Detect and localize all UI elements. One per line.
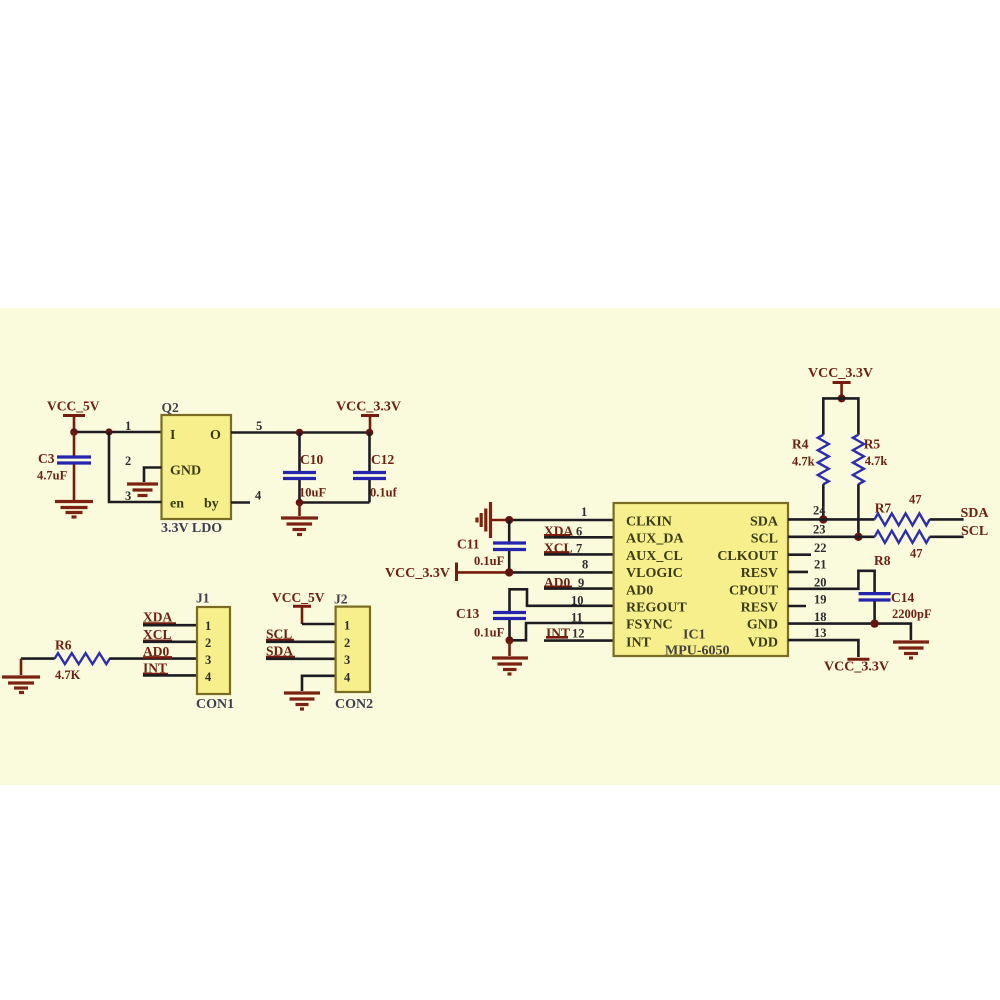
wire IC1 pin 20 CPOUT to C14 — [788, 571, 875, 592]
junction node R5 / SCL — [854, 533, 862, 541]
capacitor C11 — [457, 520, 526, 572]
svg-text:4.7uF: 4.7uF — [37, 469, 68, 483]
net label XDA (J1) — [143, 610, 176, 625]
wire J2 pin 2 — [266, 640, 336, 643]
svg-text:CON1: CON1 — [196, 697, 234, 712]
wire R7 to SDA label — [930, 518, 964, 521]
svg-text:REGOUT: REGOUT — [626, 601, 687, 616]
wire J1 pin 1 — [143, 624, 197, 627]
pin 1 label Q2 — [125, 419, 131, 433]
net label SCL (J2) — [266, 627, 294, 642]
svg-text:1: 1 — [344, 619, 350, 633]
svg-text:R8: R8 — [874, 553, 891, 568]
svg-text:18: 18 — [814, 610, 827, 624]
svg-text:4.7K: 4.7K — [55, 668, 81, 682]
wire R5 to SCL net — [857, 484, 860, 537]
svg-text:CON2: CON2 — [335, 697, 373, 712]
power symbol VCC_3.3V (IC1 pin 13) — [824, 659, 889, 674]
net label AD0 (J1) — [143, 644, 172, 659]
svg-text:VCC_3.3V: VCC_3.3V — [808, 366, 873, 381]
svg-text:SDA: SDA — [750, 515, 779, 530]
svg-text:3: 3 — [125, 489, 131, 503]
svg-text:AD0: AD0 — [626, 583, 653, 598]
svg-text:Q2: Q2 — [162, 400, 180, 415]
ground at Q2 pin 2 — [127, 484, 158, 496]
svg-text:O: O — [210, 428, 221, 443]
svg-text:10uF: 10uF — [299, 486, 326, 500]
wire VCC_3.3V to IC1 pin 8 VLOGIC — [457, 558, 614, 573]
svg-text:3.3V LDO: 3.3V LDO — [161, 521, 222, 536]
svg-text:GND: GND — [170, 464, 201, 479]
svg-text:0.1uF: 0.1uF — [474, 626, 505, 640]
svg-text:en: en — [170, 497, 184, 512]
svg-text:C3: C3 — [38, 451, 55, 466]
wire R8 to SCL label — [930, 535, 964, 538]
svg-text:1: 1 — [581, 505, 587, 519]
wire IC1 pin 19 RESV stub — [788, 593, 827, 607]
wire IC1 pin 13 VDD to power — [788, 626, 858, 657]
svg-text:2: 2 — [205, 636, 211, 650]
net label INT (J1) — [143, 660, 168, 675]
resistor R5 — [853, 435, 888, 485]
svg-text:11: 11 — [571, 611, 583, 625]
wire IC1 pin 7 AUX_CL — [544, 553, 614, 556]
svg-text:I: I — [170, 428, 175, 443]
svg-text:C14: C14 — [891, 590, 914, 605]
junction node C13 / ground — [506, 636, 514, 644]
svg-text:by: by — [204, 497, 219, 512]
svg-text:VDD: VDD — [748, 635, 778, 650]
svg-text:1: 1 — [125, 419, 131, 433]
wire Q2 output pin 5 — [231, 419, 370, 433]
svg-text:VLOGIC: VLOGIC — [626, 566, 683, 581]
svg-text:2: 2 — [344, 636, 350, 650]
net label SCL (right) — [961, 524, 988, 539]
svg-text:CLKOUT: CLKOUT — [717, 549, 778, 564]
svg-text:R7: R7 — [875, 501, 892, 516]
wire IC1 pin 18 GND to ground — [788, 610, 911, 640]
svg-text:IC1: IC1 — [683, 628, 706, 643]
svg-text:C11: C11 — [457, 537, 480, 552]
resistor R8 — [874, 531, 930, 568]
svg-text:VCC_3.3V: VCC_3.3V — [336, 400, 401, 415]
net label SDA (J2) — [266, 644, 295, 659]
junction node C12 / VCC tap — [366, 429, 374, 437]
svg-text:RESV: RESV — [741, 566, 778, 581]
ground below C13 — [492, 640, 528, 674]
junction node C10 ground — [296, 499, 304, 507]
wire R4 to SDA net — [822, 484, 825, 519]
svg-text:23: 23 — [813, 523, 826, 537]
wire IC1 pin 22 CLKOUT stub — [788, 541, 827, 555]
ground below C10 — [281, 503, 318, 535]
svg-text:AUX_DA: AUX_DA — [626, 532, 684, 547]
svg-text:12: 12 — [572, 626, 585, 640]
svg-text:CLKIN: CLKIN — [626, 515, 672, 530]
svg-text:J1: J1 — [196, 591, 210, 606]
svg-text:47: 47 — [910, 547, 923, 561]
capacitor C3 — [37, 432, 91, 500]
op-amp IC1 MPU-6050 — [614, 503, 788, 659]
wire Q2 GND pin 2 — [125, 454, 162, 482]
power symbol VCC_3.3V (regulator output) — [336, 400, 401, 433]
net label XDA (IC1 pin 6) — [544, 523, 582, 538]
svg-text:VCC_5V: VCC_5V — [272, 590, 325, 605]
svg-text:1: 1 — [205, 619, 211, 633]
wire IC1 pin 11 FSYNC to C13 bottom — [510, 611, 614, 641]
regulator Q2 (3.3V LDO) — [161, 400, 231, 536]
svg-text:0.1uf: 0.1uf — [370, 486, 398, 500]
wire IC1 pin 6 AUX_DA — [544, 536, 614, 539]
net label SDA (right) — [961, 506, 990, 521]
wire VCC_5V to Q2 pin 1 — [74, 431, 162, 434]
power symbol VCC_3.3V (IC1 pin 8) — [385, 563, 457, 582]
wire pull-up top link — [823, 398, 858, 434]
junction node VLOGIC / C11 — [505, 568, 513, 576]
svg-text:R4: R4 — [792, 437, 809, 452]
svg-text:4.7k: 4.7k — [865, 454, 888, 468]
svg-text:FSYNC: FSYNC — [626, 618, 673, 633]
svg-text:24: 24 — [813, 504, 826, 518]
capacitor C14 — [859, 590, 932, 624]
wire IC1 pin 10 REGOUT to C13 — [510, 589, 614, 611]
svg-text:AUX_CL: AUX_CL — [626, 549, 683, 564]
wire Q2 bypass pin 4 stub — [231, 489, 262, 503]
svg-text:C12: C12 — [371, 452, 394, 467]
svg-text:SCL: SCL — [961, 524, 988, 539]
svg-text:3: 3 — [205, 653, 211, 667]
svg-text:5: 5 — [256, 419, 262, 433]
svg-text:4.7k: 4.7k — [792, 455, 815, 469]
svg-text:R6: R6 — [55, 638, 72, 653]
svg-text:4: 4 — [255, 489, 262, 503]
ground below IC1 pin 18 — [893, 642, 929, 658]
wire IC1 pin 9 AD0 — [544, 587, 614, 590]
net label XCL (IC1 pin 7) — [544, 540, 582, 555]
svg-text:2200pF: 2200pF — [892, 607, 932, 621]
capacitor C13 — [456, 606, 526, 640]
power symbol VCC_3.3V (pull-ups) — [808, 366, 873, 398]
connector J2 (CON2) — [334, 592, 373, 713]
svg-text:0.1uF: 0.1uF — [474, 554, 505, 568]
svg-text:47: 47 — [909, 493, 922, 507]
capacitor C12 — [353, 433, 398, 503]
ground left of IC1 pin 1 (rotated) — [477, 502, 491, 538]
svg-text:2: 2 — [125, 454, 131, 468]
junction node C10 tap — [296, 429, 304, 437]
wire J1 pin 4 — [143, 674, 197, 677]
wire C10 to C12 bottom link — [300, 501, 370, 504]
wire IC1 pin 23 SCL — [788, 523, 875, 537]
junction node CLKIN / C11 — [505, 516, 513, 524]
svg-text:C10: C10 — [300, 452, 323, 467]
svg-text:VCC_3.3V: VCC_3.3V — [824, 660, 889, 675]
wire VCC_5V to J2 pin 1 — [302, 623, 336, 626]
svg-text:MPU-6050: MPU-6050 — [665, 644, 730, 659]
wire R6 to J1 pin 3 — [109, 657, 197, 660]
resistor R4 — [792, 435, 829, 485]
wire J1 pin 2 — [143, 640, 197, 643]
wire ground to IC1 pin 1 CLKIN — [492, 505, 614, 520]
svg-text:VCC_5V: VCC_5V — [47, 399, 100, 414]
svg-text:19: 19 — [814, 593, 827, 607]
svg-text:SCL: SCL — [751, 532, 778, 547]
ground below J2 pin 4 — [284, 693, 320, 709]
svg-text:20: 20 — [814, 576, 827, 590]
wire IC1 pin 21 RESV stub — [788, 558, 827, 572]
junction node VCC_5V / C3 — [70, 428, 78, 436]
svg-text:CPOUT: CPOUT — [729, 583, 779, 598]
svg-text:22: 22 — [814, 541, 827, 555]
svg-text:10: 10 — [571, 594, 584, 608]
svg-text:RESV: RESV — [741, 601, 778, 616]
connector J1 (CON1) — [196, 591, 234, 713]
wire J2 pin 3 — [266, 657, 336, 660]
svg-text:R5: R5 — [864, 437, 881, 452]
svg-text:SDA: SDA — [961, 506, 990, 521]
ground below C3 — [55, 502, 93, 518]
junction node en riser — [105, 428, 112, 435]
svg-text:8: 8 — [582, 558, 588, 572]
svg-text:13: 13 — [814, 626, 827, 640]
wire Q2 en pin 3 — [109, 432, 162, 503]
svg-text:VCC_3.3V: VCC_3.3V — [385, 566, 450, 581]
svg-text:GND: GND — [747, 618, 778, 633]
junction node C14 / GND net — [870, 619, 878, 627]
svg-text:C13: C13 — [456, 606, 479, 621]
svg-text:J2: J2 — [334, 592, 348, 607]
schematic sheet background — [0, 308, 1000, 785]
wire IC1 pin 24 SDA — [788, 504, 875, 520]
power symbol VCC_5V (J2) — [272, 590, 325, 624]
svg-text:3: 3 — [344, 653, 350, 667]
junction node R4 / SDA — [819, 515, 827, 523]
resistor R7 — [875, 493, 930, 526]
power symbol VCC_5V (regulator input) — [47, 399, 100, 433]
ground left of R6 — [2, 659, 40, 693]
net label INT (IC1 pin 12) — [546, 625, 585, 640]
wire J2 pin 4 to ground — [302, 676, 336, 691]
capacitor C10 — [283, 433, 326, 503]
wire ground to R6 — [21, 657, 55, 660]
svg-text:4: 4 — [205, 670, 212, 684]
wire IC1 pin 12 INT — [544, 639, 614, 642]
svg-text:INT: INT — [626, 635, 652, 650]
junction node pull-up top — [838, 394, 846, 402]
resistor R6 — [55, 638, 110, 683]
svg-text:4: 4 — [344, 671, 351, 685]
net label XCL (J1) — [143, 627, 172, 642]
net label AD0 (IC1 pin 9) — [544, 575, 584, 590]
svg-text:21: 21 — [814, 558, 827, 572]
